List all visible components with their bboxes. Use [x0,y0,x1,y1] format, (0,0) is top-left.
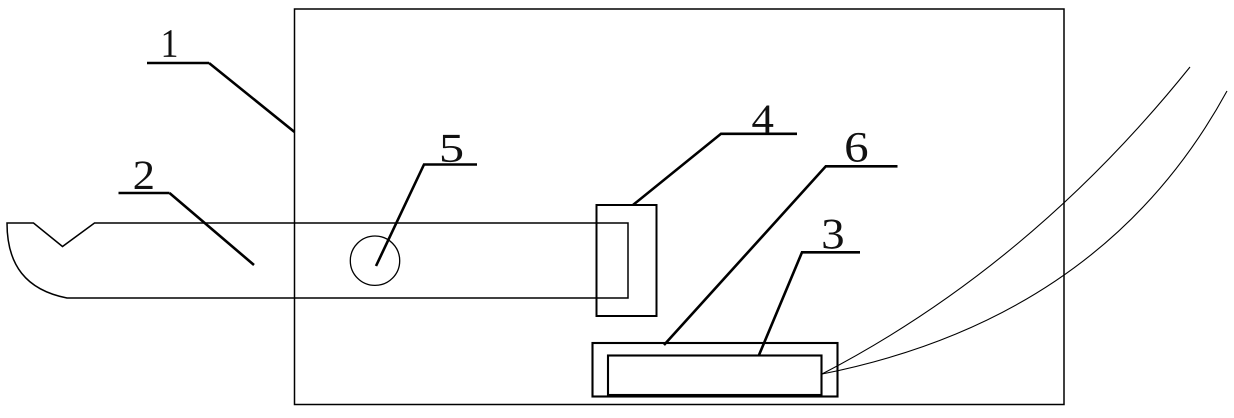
arm 2 with hooked left end [7,223,628,298]
label 3 [823,220,842,249]
guide block 4 [597,205,657,316]
base block inner 3 [608,356,822,396]
cable lower [822,91,1227,374]
label 2 [135,161,153,189]
housing box 1 [295,9,1065,405]
leader line 4 [633,134,797,205]
leader line 5 [376,165,477,267]
leader line 2 [119,193,255,265]
pivot circle 5 [350,236,399,285]
base block outer 6 [593,343,838,397]
label 1 [164,30,177,57]
cable upper [822,67,1190,374]
leader line 6 [664,166,898,345]
label 6 [846,133,867,162]
leader line 1 [147,63,295,132]
label 5 [442,135,462,162]
leader line 3 [759,252,860,355]
label 4 [752,105,773,132]
